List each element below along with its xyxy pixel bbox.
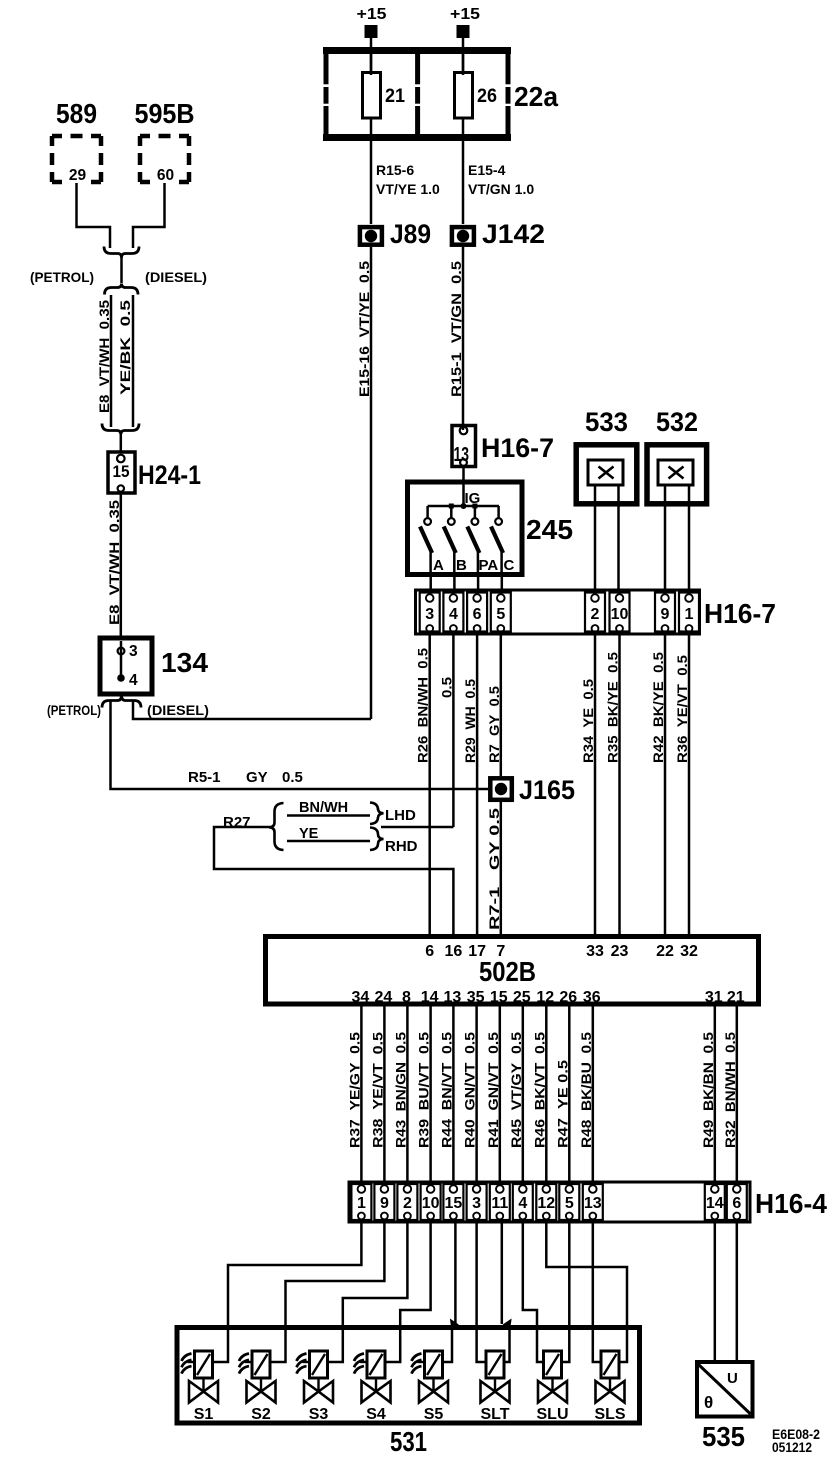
svg-text:R34 YE 0.5: R34 YE 0.5 xyxy=(580,679,596,763)
svg-text:2: 2 xyxy=(403,1195,412,1212)
svg-text:H24-1: H24-1 xyxy=(138,460,201,490)
svg-text:12: 12 xyxy=(536,989,554,1006)
wire H16-4:9 to injector S2 xyxy=(270,1222,384,1362)
svg-text:E15-4: E15-4 xyxy=(468,162,506,178)
svg-text:11: 11 xyxy=(491,1195,508,1212)
svg-text:9: 9 xyxy=(661,606,670,623)
svg-text:J165: J165 xyxy=(519,775,575,805)
wire J89 down (E15-16 VT/YE 0.5) xyxy=(370,247,373,719)
svg-text:YE/BK 0.5: YE/BK 0.5 xyxy=(117,300,133,395)
svg-text:532: 532 xyxy=(656,407,698,437)
svg-text:3: 3 xyxy=(425,606,434,623)
R27 right brace LHD xyxy=(370,803,384,825)
svg-text:13: 13 xyxy=(444,989,462,1006)
wire H16-4:10 to injector S4 xyxy=(385,1222,431,1362)
svg-text:R43 BN/GN 0.5: R43 BN/GN 0.5 xyxy=(392,1032,408,1148)
wire R35 BK/YE 0.5 (pin10 to 502B:23) xyxy=(618,634,621,934)
wire R40 (502B to H16-4) xyxy=(475,1004,478,1182)
svg-text:SLT: SLT xyxy=(480,1406,509,1423)
split brace petrol/diesel lower xyxy=(102,696,141,708)
svg-text:J142: J142 xyxy=(482,219,545,249)
svg-text:R44 BN/VT 0.5: R44 BN/VT 0.5 xyxy=(438,1032,454,1148)
wire H16-4:15 (arrow at 531) xyxy=(454,1222,457,1324)
wire H16-4:13 to valve SLS left xyxy=(593,1222,601,1362)
svg-text:4: 4 xyxy=(449,606,458,623)
svg-text:R42 BK/YE 0.5: R42 BK/YE 0.5 xyxy=(650,652,666,763)
wire R32 (502B to H16-4) xyxy=(736,1004,739,1182)
injection system box 531 xyxy=(177,1328,640,1424)
svg-text:BN/WH: BN/WH xyxy=(299,800,348,816)
245 switch A xyxy=(426,506,429,518)
svg-text:S5: S5 xyxy=(424,1406,444,1423)
injector/valve S4 xyxy=(354,1351,391,1423)
svg-text:(DIESEL): (DIESEL) xyxy=(145,269,207,285)
wire J142 down (R15-1 VT/GN 0.5) xyxy=(462,247,465,424)
merge brace below variants xyxy=(102,424,139,435)
svg-text:5: 5 xyxy=(565,1195,574,1212)
svg-text:J89: J89 xyxy=(390,219,431,249)
svg-text:C: C xyxy=(504,557,515,574)
wire H16-4:14 to 535 xyxy=(714,1222,717,1360)
R27 left lead and return path xyxy=(214,827,453,934)
svg-text:SLU: SLU xyxy=(537,1406,569,1423)
svg-text:θ: θ xyxy=(704,1393,713,1412)
wire H16-4:6 to 535 xyxy=(736,1222,739,1360)
injector/valve SLU xyxy=(537,1351,569,1423)
svg-text:60: 60 xyxy=(157,167,174,184)
svg-text:R49 BK/BN 0.5: R49 BK/BN 0.5 xyxy=(700,1032,716,1148)
wire diesel branch to J89 wire xyxy=(133,701,371,720)
injector/valve SLT xyxy=(480,1351,509,1423)
wire H16-4:1 to injector S1 xyxy=(213,1222,362,1362)
svg-text:+15: +15 xyxy=(450,6,480,23)
svg-text:7: 7 xyxy=(496,943,505,960)
wire R27 0.5 (pin4, via R27 braces to 502B:16) xyxy=(452,634,455,827)
wire to H24-1 xyxy=(120,434,123,452)
wire merged xyxy=(120,257,123,283)
svg-text:24: 24 xyxy=(375,989,393,1006)
svg-text:R7-1 GY 0.5: R7-1 GY 0.5 xyxy=(486,808,502,930)
wire petrol branch R5-1 GY 0.5 to J165 xyxy=(111,701,489,790)
svg-text:535: 535 xyxy=(702,1421,745,1452)
svg-text:YE: YE xyxy=(299,826,319,842)
svg-text:12: 12 xyxy=(537,1195,555,1212)
wire +15 left to fuse 21 xyxy=(370,38,373,75)
svg-text:34: 34 xyxy=(352,989,370,1006)
svg-text:H16-7: H16-7 xyxy=(704,598,776,629)
ECU 502B xyxy=(266,937,759,1005)
svg-text:R29 WH 0.5: R29 WH 0.5 xyxy=(462,679,478,763)
svg-text:0.5: 0.5 xyxy=(438,677,454,698)
svg-text:14: 14 xyxy=(421,989,439,1006)
svg-text:15: 15 xyxy=(445,1195,463,1212)
svg-text:H16-4: H16-4 xyxy=(755,1188,827,1219)
svg-text:26: 26 xyxy=(477,86,497,107)
wire +15 right to fuse 26 xyxy=(462,38,465,75)
svg-text:10: 10 xyxy=(422,1195,440,1212)
svg-text:502B: 502B xyxy=(479,956,536,987)
wire R29 WH 0.5 (pin6 to 502B:17) xyxy=(476,634,479,934)
svg-text:R38 YE/VT 0.5: R38 YE/VT 0.5 xyxy=(369,1032,385,1148)
svg-text:R15-6: R15-6 xyxy=(376,162,414,178)
svg-text:6: 6 xyxy=(425,943,434,960)
switch 134 xyxy=(100,638,152,694)
svg-text:VT/YE 1.0: VT/YE 1.0 xyxy=(376,181,440,197)
wire J165 to 502B:7 (R7-1 GY 0.5) xyxy=(500,801,503,934)
svg-text:5: 5 xyxy=(496,606,505,623)
svg-text:S1: S1 xyxy=(194,1406,214,1423)
245 internal bus xyxy=(428,505,499,508)
svg-text:R37 YE/GY 0.5: R37 YE/GY 0.5 xyxy=(346,1032,362,1148)
ignition switch 245 xyxy=(408,482,523,575)
wire fuse21 to J89, label R15-6 VT/YE 1.0 xyxy=(370,138,373,224)
svg-text:GY: GY xyxy=(246,769,268,786)
svg-text:R7 GY 0.5: R7 GY 0.5 xyxy=(486,686,502,763)
junction J89 xyxy=(360,227,382,245)
wire R38 (502B to H16-4) xyxy=(383,1004,386,1182)
wire R37 (502B to H16-4) xyxy=(360,1004,363,1182)
wire pin13 to ignition switch 245 xyxy=(462,468,465,506)
svg-text:R5-1: R5-1 xyxy=(188,769,221,786)
lamp 532 leads xyxy=(664,485,667,592)
svg-text:22a: 22a xyxy=(514,81,558,112)
connector strip H16-4 xyxy=(349,1182,750,1222)
svg-text:531: 531 xyxy=(390,1426,427,1457)
split brace to two wire variants xyxy=(105,284,139,295)
wire variant YE/BK 0.5 xyxy=(132,295,135,427)
svg-text:36: 36 xyxy=(583,989,601,1006)
wire R7 GY 0.5 (pin5 to J165) xyxy=(500,634,503,776)
injector/valve SLS xyxy=(594,1351,625,1423)
245 switch C xyxy=(497,506,500,518)
svg-text:533: 533 xyxy=(585,407,628,437)
fuse box 22a outline xyxy=(323,47,511,54)
svg-text:17: 17 xyxy=(468,943,486,960)
svg-text:R46 BK/VT 0.5: R46 BK/VT 0.5 xyxy=(531,1032,547,1148)
wire R34 YE 0.5 (pin2 to 502B:33) xyxy=(594,634,597,934)
svg-text:B: B xyxy=(456,557,467,574)
svg-text:3: 3 xyxy=(129,643,138,660)
svg-text:1: 1 xyxy=(685,606,694,623)
svg-text:H16-7: H16-7 xyxy=(481,433,554,463)
svg-text:32: 32 xyxy=(680,943,698,960)
svg-text:S3: S3 xyxy=(309,1406,329,1423)
wire continuation to injector S5 xyxy=(443,1329,453,1362)
svg-text:33: 33 xyxy=(586,943,604,960)
connector H24-1 pin 15 xyxy=(108,452,135,493)
wire R39 (502B to H16-4) xyxy=(429,1004,432,1182)
lamp 533 leads xyxy=(594,485,597,592)
R27 wire to pin4 wire xyxy=(381,826,453,829)
wire R43 (502B to H16-4) xyxy=(406,1004,409,1182)
svg-text:(DIESEL): (DIESEL) xyxy=(147,703,209,718)
wire H16-4:5 to valve SLU right xyxy=(562,1222,570,1362)
svg-text:14: 14 xyxy=(706,1195,724,1212)
svg-text:R39 BU/VT 0.5: R39 BU/VT 0.5 xyxy=(416,1032,432,1148)
wire R44 (502B to H16-4) xyxy=(452,1004,455,1182)
svg-text:R27: R27 xyxy=(223,814,251,831)
injector/valve S3 xyxy=(297,1351,334,1423)
svg-text:R45 VT/GY 0.5: R45 VT/GY 0.5 xyxy=(508,1032,524,1148)
svg-text:35: 35 xyxy=(467,989,485,1006)
wire H16-4:4 to valve SLU left xyxy=(523,1222,544,1362)
wire R26 BN/WH 0.5 (pin3 to 502B:6) xyxy=(428,634,431,934)
connector strip H16-7 xyxy=(416,590,700,634)
svg-text:R48 BK/BU 0.5: R48 BK/BU 0.5 xyxy=(578,1032,594,1148)
svg-text:8: 8 xyxy=(402,989,411,1006)
injector/valve S5 xyxy=(412,1351,449,1423)
svg-text:S2: S2 xyxy=(251,1406,271,1423)
svg-text:4: 4 xyxy=(129,672,138,689)
svg-text:6: 6 xyxy=(473,606,482,623)
wire variant E8 VT/WH 0.35 xyxy=(110,295,113,427)
245 switch PA xyxy=(474,506,477,518)
svg-text:25: 25 xyxy=(513,989,531,1006)
svg-text:051212: 051212 xyxy=(772,1439,812,1455)
R27 wire YE (RHD) xyxy=(287,840,370,843)
svg-text:R15-1 VT/GN 0.5: R15-1 VT/GN 0.5 xyxy=(448,261,464,397)
wire H24-1 to 134 (E8 VT/WH 0.35) xyxy=(120,493,123,638)
svg-text:U: U xyxy=(727,1370,738,1387)
svg-text:R26 BN/WH 0.5: R26 BN/WH 0.5 xyxy=(415,648,431,763)
svg-text:LHD: LHD xyxy=(385,807,416,824)
svg-text:R40 GN/VT 0.5: R40 GN/VT 0.5 xyxy=(462,1032,478,1148)
wire H16-4:12 to valve SLS right xyxy=(546,1222,627,1362)
wire from 595B pin 60 xyxy=(133,183,165,248)
fuse 26 xyxy=(462,50,465,71)
junction J165 xyxy=(490,778,512,800)
svg-text:E8 VT/WH 0.35: E8 VT/WH 0.35 xyxy=(106,500,122,625)
svg-text:9: 9 xyxy=(380,1195,389,1212)
wire R41 (502B to H16-4) xyxy=(499,1004,502,1182)
R27 right brace RHD xyxy=(370,828,384,851)
svg-text:(PETROL): (PETROL) xyxy=(47,703,101,718)
svg-text:589: 589 xyxy=(56,98,97,129)
fuse box divider xyxy=(415,47,420,84)
svg-text:R47 YE 0.5: R47 YE 0.5 xyxy=(554,1060,570,1148)
svg-text:245: 245 xyxy=(526,514,573,545)
svg-text:16: 16 xyxy=(445,943,463,960)
svg-text:13: 13 xyxy=(454,444,470,466)
R27 wire BN/WH (LHD) xyxy=(287,814,370,817)
svg-text:10: 10 xyxy=(611,606,629,623)
svg-text:15: 15 xyxy=(490,989,508,1006)
svg-text:595B: 595B xyxy=(135,98,195,129)
svg-text:RHD: RHD xyxy=(385,838,418,855)
wire R49 (502B to H16-4) xyxy=(714,1004,717,1182)
injector/valve S2 xyxy=(239,1351,276,1423)
injector/valve S1 xyxy=(182,1351,219,1423)
svg-text:23: 23 xyxy=(611,943,629,960)
wire R45 (502B to H16-4) xyxy=(522,1004,525,1182)
junction J142 xyxy=(452,227,474,245)
svg-text:4: 4 xyxy=(518,1195,527,1212)
wire from 589 pin 29 xyxy=(77,183,111,248)
svg-text:E15-16 VT/YE 0.5: E15-16 VT/YE 0.5 xyxy=(356,261,372,397)
svg-text:29: 29 xyxy=(69,167,87,184)
wire R47 (502B to H16-4) xyxy=(568,1004,571,1182)
wire R48 (502B to H16-4) xyxy=(592,1004,595,1182)
svg-text:S4: S4 xyxy=(366,1406,386,1423)
connector H16-7 pin 13 xyxy=(462,424,465,430)
svg-text:E8 VT/WH 0.35: E8 VT/WH 0.35 xyxy=(96,300,112,413)
svg-text:SLS: SLS xyxy=(594,1406,625,1423)
merge brace petrol/diesel xyxy=(104,247,139,258)
svg-text:VT/GN 1.0: VT/GN 1.0 xyxy=(468,181,534,197)
svg-text:R35 BK/YE 0.5: R35 BK/YE 0.5 xyxy=(605,652,621,763)
svg-text:3: 3 xyxy=(472,1195,481,1212)
wire H16-4:11 (arrow at 531) xyxy=(501,1222,504,1324)
wire R36 YE/VT 0.5 (pin1 to 502B:32) xyxy=(688,634,691,934)
wire R46 (502B to H16-4) xyxy=(545,1004,548,1182)
svg-text:21: 21 xyxy=(727,989,745,1006)
svg-text:R36 YE/VT 0.5: R36 YE/VT 0.5 xyxy=(674,655,690,763)
svg-text:6: 6 xyxy=(732,1195,741,1212)
svg-text:R32 BN/WH 0.5: R32 BN/WH 0.5 xyxy=(722,1032,738,1148)
svg-text:15: 15 xyxy=(113,462,130,481)
svg-text:+15: +15 xyxy=(357,6,387,23)
svg-text:134: 134 xyxy=(161,647,208,678)
svg-text:R41 GN/VT 0.5: R41 GN/VT 0.5 xyxy=(485,1032,501,1148)
svg-text:PA: PA xyxy=(479,557,499,574)
svg-text:26: 26 xyxy=(559,989,577,1006)
wire fuse26 to J142, label E15-4 VT/GN 1.0 xyxy=(462,138,465,224)
svg-text:(PETROL): (PETROL) xyxy=(30,269,94,285)
R27 left brace xyxy=(269,803,284,850)
svg-text:1: 1 xyxy=(357,1195,366,1212)
245 switch B xyxy=(450,506,453,518)
svg-text:21: 21 xyxy=(385,86,405,107)
svg-text:0.5: 0.5 xyxy=(282,769,303,786)
wire H16-4:2 to injector S3 xyxy=(328,1222,408,1362)
svg-text:A: A xyxy=(433,557,444,574)
wire 134 down xyxy=(120,694,123,697)
wire H16-4:3 to valve SLT left xyxy=(477,1222,486,1362)
temperature sensor 535 xyxy=(697,1362,753,1417)
fuse 21 xyxy=(370,50,373,71)
svg-text:2: 2 xyxy=(591,606,600,623)
svg-text:31: 31 xyxy=(705,989,723,1006)
svg-text:13: 13 xyxy=(584,1195,602,1212)
svg-text:22: 22 xyxy=(656,943,674,960)
wire continuation to valve SLT right xyxy=(504,1329,510,1362)
wire R42 BK/YE 0.5 (pin9 to 502B:22) xyxy=(664,634,667,934)
wires 245 to connector strip xyxy=(429,575,432,592)
